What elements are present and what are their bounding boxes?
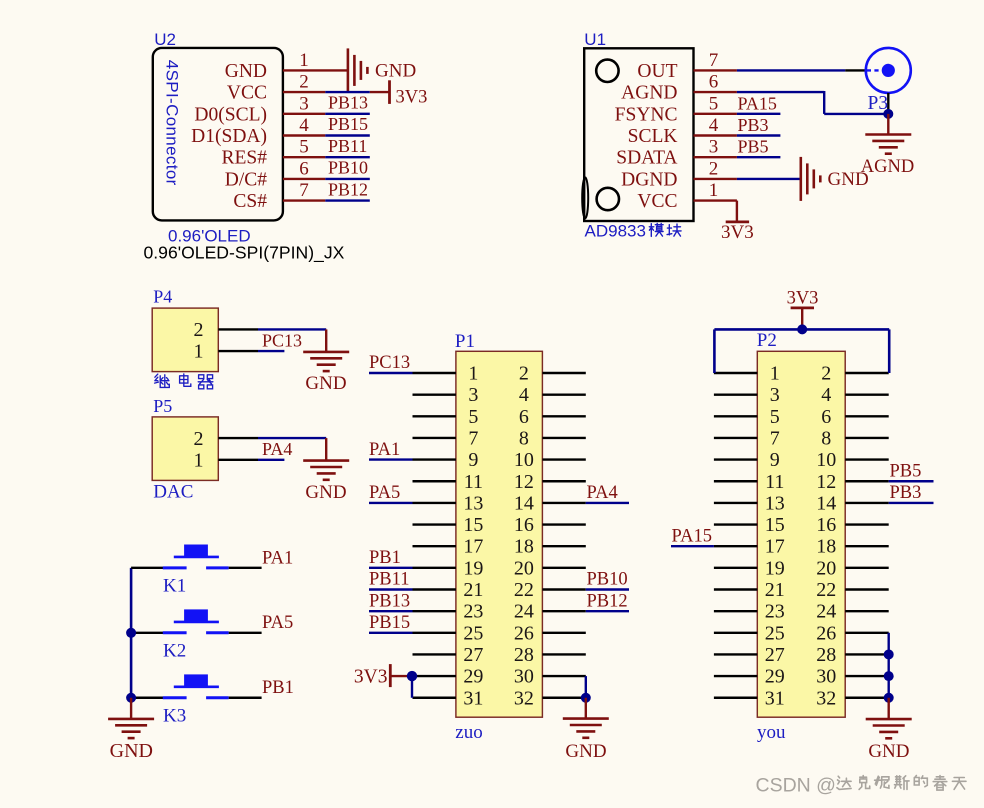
svg-text:D1(SDA): D1(SDA) [191, 126, 267, 147]
P1 pin 10 [542, 458, 585, 460]
P2 pin 31 [714, 697, 757, 699]
P2 pin 16 [845, 523, 889, 525]
wire P1 left net PB13 [369, 610, 413, 612]
svg-text:16: 16 [816, 514, 836, 536]
svg-text:2: 2 [194, 428, 204, 450]
P1 pin 9 [413, 458, 456, 460]
wire U1 net PA15 [737, 113, 781, 115]
svg-text:1: 1 [299, 50, 309, 71]
svg-text:20: 20 [816, 557, 836, 579]
P2 pin 7 [714, 437, 757, 439]
svg-text:2: 2 [519, 363, 529, 385]
svg-text:4SPI-Connector: 4SPI-Connector [163, 60, 182, 186]
connector U2 0.96'OLED 4SPI-Connector [144, 30, 345, 263]
wire U2 pin 3 net PB13 [325, 113, 370, 115]
svg-text:9: 9 [770, 449, 780, 471]
svg-text:3V3: 3V3 [721, 222, 754, 243]
P2 pin 27 [714, 653, 757, 655]
svg-text:3: 3 [770, 384, 780, 406]
svg-text:32: 32 [816, 687, 836, 709]
junction node P1 3V3 [407, 671, 417, 681]
svg-text:3: 3 [299, 93, 309, 114]
svg-text:PB5: PB5 [738, 137, 769, 157]
P2 pin 32 [845, 697, 889, 699]
svg-text:PA5: PA5 [369, 483, 400, 503]
header P1 zuo [455, 331, 543, 743]
P2 pin 6 [845, 415, 889, 417]
P2 pin 3 [714, 393, 757, 395]
svg-text:AD9833: AD9833 [585, 222, 646, 241]
P2 pin 5 [714, 415, 757, 417]
junction node AGND [883, 109, 893, 119]
connector P4 relay [152, 287, 218, 372]
P2 pin 28 [845, 653, 889, 655]
svg-text:PB3: PB3 [890, 483, 922, 503]
svg-text:PA15: PA15 [738, 93, 777, 113]
U1 pin 1 [694, 180, 737, 201]
P2 pin 21 [714, 588, 757, 590]
svg-text:6: 6 [519, 406, 529, 428]
P1 pin 15 [413, 523, 456, 525]
svg-text:11: 11 [765, 471, 784, 493]
svg-text:P2: P2 [757, 330, 777, 351]
svg-text:DGND: DGND [621, 169, 677, 190]
junction node P2 pin32 [884, 693, 894, 703]
P2 pin 18 [845, 545, 889, 547]
svg-text:5: 5 [709, 93, 719, 114]
U2 pin 3 [283, 93, 325, 114]
svg-text:GND: GND [868, 741, 909, 762]
svg-text:20: 20 [514, 557, 534, 579]
svg-text:K2: K2 [163, 641, 186, 662]
svg-text:15: 15 [765, 514, 785, 536]
svg-text:PB12: PB12 [328, 179, 368, 199]
svg-text:PA4: PA4 [262, 439, 292, 459]
wire P2 right net PB5 [889, 480, 934, 482]
P2 pin 12 [845, 480, 889, 482]
junction node P2 pin30 [884, 671, 894, 681]
svg-text:K3: K3 [163, 706, 186, 727]
svg-text:29: 29 [765, 666, 785, 688]
svg-text:25: 25 [765, 622, 785, 644]
ground GND at P5 [303, 461, 349, 503]
svg-text:13: 13 [463, 492, 483, 514]
P5 pin 1 [218, 459, 258, 461]
P2 pin 25 [714, 632, 757, 634]
svg-text:22: 22 [514, 579, 534, 601]
svg-text:30: 30 [514, 666, 534, 688]
P5 pin 2 [218, 437, 258, 439]
svg-text:P1: P1 [455, 331, 475, 352]
P1 pin 32 [542, 697, 585, 699]
power 3V3 at U2 pin 2 [390, 80, 428, 107]
wire P4 pin 2 to GND [258, 329, 326, 352]
P2 pin 4 [845, 393, 889, 395]
P1 pin 24 [542, 610, 585, 612]
wire P1 right net PB12 [586, 610, 629, 612]
svg-text:1: 1 [468, 363, 478, 385]
wire P1 right net PA4 [586, 502, 629, 504]
wire U2 pin 4 net PB15 [325, 134, 370, 136]
svg-text:10: 10 [816, 449, 836, 471]
wire U1 DGND [737, 178, 801, 180]
svg-text:3V3: 3V3 [787, 289, 819, 309]
module U1 AD9833 [582, 30, 693, 221]
P2 pin 11 [714, 480, 757, 482]
P2 pin 22 [845, 588, 889, 590]
wire button bus [130, 568, 133, 698]
svg-text:PB1: PB1 [262, 678, 294, 698]
svg-text:4: 4 [299, 115, 309, 136]
svg-text:12: 12 [514, 471, 534, 493]
ground GND at P1 [563, 698, 609, 762]
svg-text:30: 30 [816, 666, 836, 688]
svg-text:D0(SCL): D0(SCL) [194, 104, 267, 125]
U2 pin 4 [283, 115, 325, 136]
svg-text:31: 31 [765, 687, 785, 709]
svg-text:29: 29 [463, 666, 483, 688]
svg-text:23: 23 [765, 601, 785, 623]
svg-text:DAC: DAC [153, 482, 193, 503]
svg-text:PC13: PC13 [369, 353, 410, 373]
P1 pin 19 [413, 567, 456, 569]
svg-text:PB13: PB13 [328, 93, 368, 113]
svg-text:28: 28 [514, 644, 534, 666]
U1 pin 5 [694, 93, 737, 114]
svg-text:1: 1 [194, 450, 204, 472]
svg-text:27: 27 [765, 644, 785, 666]
wire P2 3V3 rail [714, 329, 889, 373]
svg-text:7: 7 [770, 427, 780, 449]
svg-text:K1: K1 [163, 576, 186, 597]
P2 pin 30 [845, 675, 889, 677]
svg-text:14: 14 [514, 492, 534, 514]
svg-text:D/C#: D/C# [225, 169, 268, 190]
U1 pin 6 [694, 72, 737, 93]
svg-text:RES#: RES# [221, 148, 267, 169]
P2 pin 26 [845, 632, 889, 634]
power 3V3 at U1 VCC [721, 201, 754, 243]
svg-text:4: 4 [709, 115, 719, 136]
wire P1 left net PA1 [369, 458, 413, 460]
svg-text:18: 18 [816, 536, 836, 558]
svg-text:SDATA: SDATA [616, 148, 677, 169]
svg-text:5: 5 [468, 406, 478, 428]
svg-text:PA1: PA1 [369, 440, 400, 460]
svg-text:PB10: PB10 [328, 158, 368, 178]
svg-text:PB13: PB13 [369, 591, 410, 611]
wire U2 pin 6 net PB10 [325, 178, 370, 180]
svg-text:5: 5 [770, 406, 780, 428]
svg-text:25: 25 [463, 622, 483, 644]
P2 pin 13 [714, 502, 757, 504]
svg-text:24: 24 [816, 601, 836, 623]
P2 pin 23 [714, 610, 757, 612]
P1 pin 6 [542, 415, 585, 417]
svg-text:6: 6 [821, 406, 831, 428]
svg-text:23: 23 [463, 601, 483, 623]
svg-text:PA1: PA1 [262, 548, 293, 568]
label AD9833模块 [585, 222, 682, 241]
ground GND at U2 pin 1 [348, 48, 416, 92]
ground GND at P2 [866, 698, 912, 762]
svg-text:P4: P4 [153, 287, 172, 307]
wire U2 pin 7 net PB12 [325, 199, 370, 201]
U2 pin 5 [283, 137, 325, 158]
ground GND at K3 [108, 698, 154, 762]
svg-text:14: 14 [816, 492, 836, 514]
svg-text:PA5: PA5 [262, 613, 293, 633]
svg-text:17: 17 [765, 536, 785, 558]
U1 pin 2 [694, 158, 737, 179]
P2 pin 29 [714, 675, 757, 677]
svg-text:4: 4 [519, 384, 529, 406]
svg-text:2: 2 [821, 363, 831, 385]
U1 pin 4 [694, 115, 737, 136]
P2 pin 19 [714, 567, 757, 569]
svg-text:6: 6 [299, 158, 309, 179]
U2 pin 1 [283, 50, 348, 71]
U2 pin 6 [283, 158, 325, 179]
connector P5 DAC [152, 396, 218, 503]
P1 pin 7 [413, 437, 456, 439]
svg-text:GND: GND [828, 169, 869, 190]
svg-text:CSDN @: CSDN @ [756, 774, 836, 796]
svg-text:2: 2 [194, 319, 204, 341]
wire U2 pin 2 to 3V3 [325, 91, 389, 93]
svg-text:21: 21 [765, 579, 785, 601]
ground GND at U1 DGND [801, 157, 869, 201]
svg-text:3: 3 [709, 137, 719, 158]
svg-text:PA15: PA15 [672, 526, 712, 546]
P1 pin 21 [413, 588, 456, 590]
svg-text:GND: GND [305, 482, 346, 503]
svg-text:27: 27 [463, 644, 483, 666]
connector P3 [845, 48, 911, 114]
svg-text:1: 1 [770, 363, 780, 385]
svg-text:PB5: PB5 [890, 461, 922, 481]
svg-text:26: 26 [514, 622, 534, 644]
svg-text:15: 15 [463, 514, 483, 536]
svg-text:SCLK: SCLK [628, 126, 678, 147]
P1 pin 27 [413, 653, 456, 655]
P2 pin 8 [845, 437, 889, 439]
svg-text:FSYNC: FSYNC [615, 104, 678, 125]
svg-text:9: 9 [468, 449, 478, 471]
P1 pin 4 [542, 393, 585, 395]
svg-text:PB1: PB1 [369, 548, 401, 568]
svg-text:PB12: PB12 [587, 591, 628, 611]
svg-text:6: 6 [709, 72, 719, 93]
svg-text:16: 16 [514, 514, 534, 536]
U1 pin 7 [694, 50, 737, 71]
svg-text:0.96'OLED-SPI(7PIN)_JX: 0.96'OLED-SPI(7PIN)_JX [144, 243, 345, 264]
P1 pin 3 [413, 393, 456, 395]
svg-text:22: 22 [816, 579, 836, 601]
svg-text:PB11: PB11 [328, 136, 367, 156]
junction node P2 pin28 [884, 649, 894, 659]
wire P1 left net PA5 [369, 502, 413, 504]
svg-text:PB15: PB15 [369, 613, 410, 633]
svg-text:GND: GND [305, 373, 346, 394]
svg-text:CS#: CS# [233, 191, 267, 212]
svg-text:10: 10 [514, 449, 534, 471]
P2 pin 15 [714, 523, 757, 525]
P1 pin 1 [413, 372, 456, 374]
svg-text:21: 21 [463, 579, 483, 601]
label 继电器 [155, 374, 213, 389]
switch K1 [131, 545, 262, 597]
P1 pin 5 [413, 415, 456, 417]
svg-text:U2: U2 [154, 30, 176, 49]
wire P5 pin 1 net PA4 [258, 459, 284, 461]
P1 pin 26 [542, 632, 585, 634]
watermark CSDN [756, 774, 967, 796]
svg-text:1: 1 [709, 180, 719, 201]
svg-text:32: 32 [514, 687, 534, 709]
P2 pin 17 [714, 545, 757, 547]
svg-text:13: 13 [765, 492, 785, 514]
wire P2 right net PB3 [889, 502, 934, 504]
U2 pin 7 [283, 180, 325, 201]
P1 pin 2 [542, 372, 585, 374]
wire P1 left net PB11 [369, 588, 413, 590]
svg-text:4: 4 [821, 384, 831, 406]
wire P2 gnd bus [888, 633, 890, 698]
svg-text:zuo: zuo [455, 722, 482, 743]
P2 pin 20 [845, 567, 889, 569]
wire P1 left net PB1 [369, 567, 413, 569]
P1 pin 13 [413, 502, 456, 504]
svg-text:PA4: PA4 [587, 483, 618, 503]
svg-text:26: 26 [816, 622, 836, 644]
power 3V3 at P1 pin 29 [354, 664, 412, 688]
svg-text:PB15: PB15 [328, 114, 368, 134]
P1 pin 18 [542, 545, 585, 547]
P1 pin 22 [542, 588, 585, 590]
P1 pin 31 [413, 697, 456, 699]
P2 pin 14 [845, 502, 889, 504]
wire P1 right net PB10 [586, 588, 629, 590]
svg-text:AGND: AGND [621, 83, 677, 104]
P1 pin 11 [413, 480, 456, 482]
svg-text:GND: GND [225, 61, 267, 82]
junction node K2 [126, 628, 136, 638]
P2 pin 10 [845, 458, 889, 460]
P1 pin 14 [542, 502, 585, 504]
junction node P1 GND [581, 693, 591, 703]
svg-text:31: 31 [463, 687, 483, 709]
switch K3 [131, 674, 262, 726]
wire U1 OUT to P3 [737, 69, 845, 71]
svg-text:7: 7 [468, 427, 478, 449]
svg-text:2: 2 [709, 158, 719, 179]
wire P1 left net PC13 [369, 372, 413, 374]
svg-text:17: 17 [463, 536, 483, 558]
ground AGND [861, 114, 914, 177]
P1 pin 25 [413, 632, 456, 634]
P1 pin 23 [413, 610, 456, 612]
svg-text:19: 19 [463, 557, 483, 579]
P1 pin 16 [542, 523, 585, 525]
P1 pin 8 [542, 437, 585, 439]
svg-text:GND: GND [565, 741, 606, 762]
wire U1 AGND to node [737, 91, 888, 114]
P1 pin 30 [542, 675, 585, 677]
wire P5 pin 2 to GND [258, 438, 326, 461]
svg-text:18: 18 [514, 536, 534, 558]
wire P4 pin 1 net PC13 [258, 350, 284, 352]
svg-text:12: 12 [816, 471, 836, 493]
ground GND at P4 [303, 352, 349, 394]
wire U1 net PB3 [737, 134, 781, 136]
header P2 you [757, 330, 845, 743]
P2 pin 1 [714, 372, 757, 374]
U2 pin 2 [283, 72, 325, 93]
P4 pin 2 [218, 328, 258, 330]
svg-text:PC13: PC13 [262, 330, 302, 350]
wire P1 left net PB15 [369, 632, 413, 634]
svg-text:8: 8 [821, 427, 831, 449]
P2 pin 24 [845, 610, 889, 612]
junction node P2 3V3 [797, 324, 807, 334]
switch K2 [131, 609, 262, 661]
svg-text:PB3: PB3 [738, 115, 769, 135]
svg-text:VCC: VCC [637, 191, 677, 212]
svg-text:19: 19 [765, 557, 785, 579]
P1 pin 28 [542, 653, 585, 655]
U1 pin 3 [694, 137, 737, 158]
wire P2 left net PA15 [671, 545, 714, 547]
wire U1 net PB5 [737, 156, 781, 158]
svg-text:GND: GND [110, 740, 153, 762]
wire P1 pin29-31 [411, 676, 413, 698]
svg-text:7: 7 [709, 50, 719, 71]
power 3V3 at P2 [787, 289, 819, 330]
junction node K3 [126, 693, 136, 703]
P1 pin 29 [413, 675, 456, 677]
svg-text:1: 1 [194, 341, 204, 363]
svg-text:U1: U1 [584, 30, 606, 49]
svg-text:5: 5 [299, 137, 309, 158]
wire P1 pin30-32 [585, 676, 587, 698]
P2 pin 9 [714, 458, 757, 460]
svg-text:VCC: VCC [227, 83, 267, 104]
P4 pin 1 [218, 350, 258, 352]
svg-text:28: 28 [816, 644, 836, 666]
svg-text:2: 2 [299, 72, 309, 93]
svg-text:3: 3 [468, 384, 478, 406]
svg-text:3V3: 3V3 [396, 88, 428, 108]
P2 pin 2 [845, 372, 889, 374]
svg-text:GND: GND [375, 60, 416, 81]
wire U2 pin 5 net PB11 [325, 156, 370, 158]
P1 pin 20 [542, 567, 585, 569]
svg-text:8: 8 [519, 427, 529, 449]
svg-text:OUT: OUT [637, 61, 677, 82]
svg-text:P5: P5 [153, 396, 172, 416]
svg-text:24: 24 [514, 601, 534, 623]
P1 pin 12 [542, 480, 585, 482]
svg-text:PB11: PB11 [369, 570, 409, 590]
svg-text:11: 11 [464, 471, 483, 493]
svg-text:you: you [757, 722, 786, 743]
svg-text:PB10: PB10 [587, 570, 628, 590]
P1 pin 17 [413, 545, 456, 547]
svg-text:3V3: 3V3 [354, 667, 388, 688]
svg-text:AGND: AGND [861, 157, 914, 177]
svg-text:7: 7 [299, 180, 309, 201]
